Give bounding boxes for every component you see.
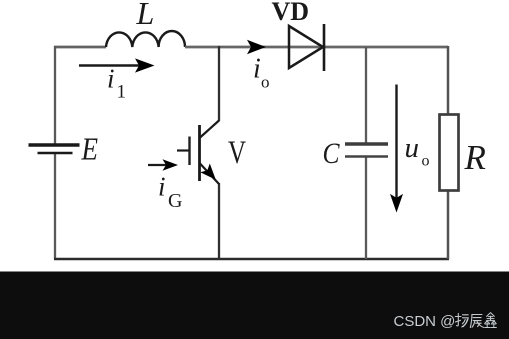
svg-text:V: V xyxy=(228,135,246,171)
svg-text:G: G xyxy=(168,190,182,212)
svg-text:i: i xyxy=(253,54,261,85)
svg-text:C: C xyxy=(323,137,341,170)
svg-text:E: E xyxy=(81,131,99,167)
svg-text:o: o xyxy=(261,73,270,92)
wire: transistor emitter vertical xyxy=(218,183,220,259)
svg-text:u: u xyxy=(405,132,420,164)
IGBT emitter diagonal xyxy=(200,163,220,184)
IGBT main bar xyxy=(198,125,201,181)
svg-text:o: o xyxy=(422,153,430,170)
svg-text:1: 1 xyxy=(117,82,127,103)
wire: capacitor branch lower xyxy=(365,157,367,259)
svg-text:i: i xyxy=(158,172,166,202)
watermark band xyxy=(0,272,509,339)
svg-text:VD: VD xyxy=(272,0,310,26)
wire: left vertical upper (top corner to battery) xyxy=(54,46,56,144)
wire: capacitor branch upper xyxy=(365,47,367,143)
IGBT collector diagonal xyxy=(200,121,220,139)
svg-text:CSDN @: CSDN @ xyxy=(394,313,456,330)
IGBT V : gate lead xyxy=(177,149,189,151)
diode VD cathode bar xyxy=(323,24,326,71)
wire: left vertical lower (battery to bottom) xyxy=(54,154,56,260)
wire: top left horizontal (E to inductor) xyxy=(54,46,106,49)
watermark glyph chen xyxy=(470,315,483,328)
wire: top horizontal (inductor to right corner) xyxy=(185,46,448,49)
wire: right vertical upper (top corner to resistor) xyxy=(447,46,450,115)
output voltage arrow uo xyxy=(395,85,397,199)
svg-text:L: L xyxy=(136,0,155,31)
watermark glyph xin xyxy=(485,313,497,328)
battery E plates xyxy=(29,143,80,147)
current arrow i1 xyxy=(79,64,141,66)
resistor R body xyxy=(440,115,459,191)
capacitor C plates xyxy=(345,142,388,146)
diode VD triangle xyxy=(289,26,323,68)
current arrow io on top wire xyxy=(247,40,266,54)
wire: transistor collector vertical xyxy=(218,46,220,121)
IGBT gate bar xyxy=(188,137,190,166)
gate current arrow iG xyxy=(148,164,167,166)
inductor L xyxy=(106,31,185,47)
wire: bottom horizontal xyxy=(54,258,449,261)
svg-text:i: i xyxy=(107,64,115,94)
svg-text:R: R xyxy=(464,138,486,177)
wire: right vertical lower (resistor to bottom) xyxy=(447,190,450,259)
watermark glyph yang xyxy=(455,314,468,328)
IGBT emitter arrowhead xyxy=(200,164,216,180)
